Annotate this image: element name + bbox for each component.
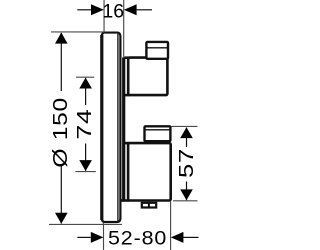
handle sleeve bar between plate face and handles (122, 57, 125, 201)
bottom handle upper sleeve spur (124, 142, 129, 145)
plate wall flange (thick back edge) (100, 35, 103, 220)
bottom handle cap parting line (145, 129, 171, 131)
dim 52-80: right arrow tail (183, 236, 198, 238)
dim 52-80: right arrowhead (171, 232, 184, 243)
dim 57: vertical dimension line lower part (186, 182, 188, 201)
top handle square body (128, 58, 167, 96)
dim D150: bottom extension line (49, 223, 122, 225)
dim 52-80: left arrow tail (77, 236, 91, 238)
dim 52-80: left extension line (103, 223, 105, 250)
dim D150: vertical dimension line lower part (60, 166, 62, 224)
dim D150: top arrowhead (55, 33, 68, 44)
dim 57: bottom arrowhead (180, 189, 193, 200)
nub divider (148, 202, 150, 208)
dim 57: top arrowhead (180, 127, 193, 138)
dim 74: bottom extension line (75, 171, 95, 173)
dim 16: left arrow tail (77, 9, 91, 11)
dim D150: bottom arrowhead (55, 213, 68, 224)
dim 57: vertical dimension line upper part (186, 128, 188, 148)
dim 74: top arrowhead (79, 78, 92, 89)
dim 16: left arrowhead (91, 4, 104, 15)
dim 74: vertical dimension line lower part (85, 144, 87, 171)
bottom handle cap block (145, 126, 171, 141)
dim 57: bottom extension line (173, 200, 198, 202)
svg-text:16: 16 (102, 0, 124, 22)
top handle upper sleeve spur (124, 56, 129, 59)
dim 16: right arrow tail (137, 9, 152, 11)
svg-text:Ø 150: Ø 150 (49, 97, 72, 168)
dim 16: left extension line (103, 0, 105, 33)
safety stop nub under bottom handle (142, 203, 156, 208)
top handle lower sleeve spur (124, 94, 129, 97)
escutcheon plate (side view, outer profile) (102, 33, 121, 222)
dim 52-80: right extension line (170, 202, 172, 250)
dim D150: vertical dimension line upper part (60, 33, 62, 91)
dim 16: right extension line (123, 0, 125, 58)
dim 16: right arrowhead (124, 4, 137, 15)
bottom handle square body (128, 143, 171, 200)
svg-text:52-80: 52-80 (108, 227, 167, 249)
top handle cap parting line (146, 47, 168, 49)
dim D150: top extension line (51, 31, 104, 33)
dim 52-80: left arrowhead (91, 232, 104, 243)
svg-text:74: 74 (73, 108, 96, 139)
svg-text:57: 57 (174, 148, 197, 178)
top handle cap block (146, 42, 168, 59)
dim 74: bottom arrowhead (79, 160, 92, 171)
dim 74: vertical dimension line upper part (85, 78, 87, 105)
dim 57: top extension line (172, 125, 198, 127)
dim 74: top extension line (76, 76, 94, 78)
bottom handle lower sleeve spur (121, 199, 130, 202)
plate face contour line (117, 34, 119, 221)
